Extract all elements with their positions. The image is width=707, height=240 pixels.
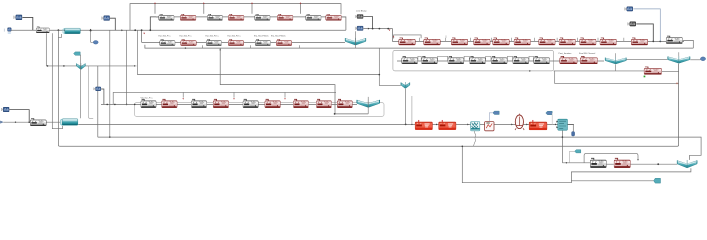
source block H5 (gray) (628, 22, 636, 26)
row A feed riser (150, 17, 158, 30)
row D gap lid 4 (486, 56, 491, 61)
filter block C10 (red) (600, 38, 616, 45)
goto tag Td (575, 150, 581, 153)
junction x405 y124 (405, 124, 407, 126)
junction x150 on main (149, 29, 151, 31)
row C chain wire (392, 40, 684, 42)
filter block C1 (red) (399, 38, 415, 45)
H3 drop (101, 89, 104, 104)
clock block (oval meter) (515, 114, 524, 130)
row F main bus y124.4 (78, 123, 574, 125)
funnel E stem (367, 97, 369, 114)
H5 wire (636, 24, 653, 42)
filter block D9 (red) (580, 56, 597, 64)
filter block C-end (gray) (666, 36, 682, 44)
filter block D8 (red) (560, 56, 577, 64)
source block H1b (102, 16, 110, 21)
bracket A arrow 2 (203, 2, 205, 4)
filter block C9 (red) (580, 38, 596, 45)
filter block D6 (gray) (513, 56, 529, 64)
junction at x58 (58, 29, 60, 31)
gain block A0 (36, 27, 49, 33)
source block H2 (1, 107, 9, 112)
row C gap tick 4 (490, 38, 492, 42)
rowE bracket tick 1 (182, 92, 184, 97)
filter block A2a (gray) (207, 14, 222, 20)
P1 out wire (662, 70, 679, 72)
wire H1 to main node (22, 17, 32, 30)
small cup C1 (77, 63, 86, 70)
gain block F3 (bright) (529, 120, 547, 130)
arrow end bus65.9 (134, 65, 135, 67)
bracket A arrow 3 (251, 2, 253, 4)
filter block E5 (red) (316, 99, 331, 107)
rowG bracket arrow (637, 159, 639, 160)
row B chain wire (142, 41, 345, 43)
funnel E-end (357, 99, 380, 107)
filter block E4 (red) (293, 99, 308, 107)
small cup C2 (401, 82, 410, 89)
filter block D7 (gray) (534, 56, 550, 64)
block P1 (red small) (644, 67, 662, 75)
input port In1 (4, 28, 11, 34)
svg-text:EQ_Std_Fl6bits: EQ_Std_Fl6bits (271, 34, 286, 37)
arrow on under-bus (185, 47, 187, 49)
svg-text:VG_Var_Fl a: VG_Var_Fl a (141, 96, 154, 99)
rowE bracket arrow 2 (233, 98, 235, 99)
filter block D3 (gray) (448, 56, 464, 64)
filter block C7 (red) (539, 38, 555, 45)
goto tag Te (654, 178, 661, 183)
junction x15 y122 (15, 122, 16, 123)
feedback drop T2-to-bus146 (60, 64, 679, 147)
row C gap tick 10 (623, 38, 625, 42)
junction x141 on main (141, 29, 143, 31)
filter block B1b (red) (181, 39, 197, 45)
bus y137 long (98, 66, 701, 160)
arrow rowF e (555, 123, 557, 125)
junction y65.9 a (47, 65, 49, 67)
junction x335 y113.9 (334, 113, 336, 115)
junction x658 y164 (657, 163, 659, 165)
filter block E1a (gray) (141, 99, 156, 107)
filter block C5 (red) (493, 38, 509, 45)
T2 output wire (690, 59, 700, 61)
arrow rowF a (436, 123, 438, 125)
goto tag Tb (493, 111, 499, 114)
filter block A3a (gray) (255, 14, 270, 20)
row E frame (135, 103, 385, 117)
feedback path E (220, 48, 368, 114)
svg-text:Line Blurry: Line Blurry (356, 9, 367, 12)
wire H1b down to main (110, 18, 116, 30)
H4 wire (633, 9, 660, 42)
arrow on frame bottom (529, 70, 531, 72)
switch block W (teal) (471, 122, 480, 131)
teal1 underside loop (58, 34, 61, 37)
row B under tick 3 (299, 45, 301, 48)
drop x109 long (109, 30, 111, 137)
rowE bracket y92.4 (113, 92, 336, 104)
drop x46 (45, 33, 47, 66)
tick on main wire at x90 (90, 29, 92, 30)
filter block A4a (gray) (306, 14, 321, 20)
junction x462 y146 (462, 146, 464, 148)
red arrow row C bracket (393, 36, 395, 37)
LB-bot wire y28.6 (363, 29, 392, 42)
rowG out wire (631, 163, 678, 165)
T2 top stem (678, 52, 680, 56)
filter block E1b (red) (162, 99, 178, 107)
filter block A4b (red) (326, 14, 342, 20)
goto tag Tc (546, 111, 552, 114)
arrow rowF c (511, 123, 513, 125)
C2 stem down (405, 89, 407, 125)
drop x137 to bus74 (136, 30, 138, 74)
filter block B2a (gray) (206, 39, 221, 45)
row D gap lid 3 (464, 56, 469, 61)
filter block G1 (gray) (590, 158, 606, 167)
junction x372 y28.6 (372, 28, 374, 30)
rowG bracket (584, 154, 638, 163)
funnel T2 (668, 56, 690, 63)
row C left bracket (394, 35, 422, 39)
filter block C8 (red) (559, 38, 575, 45)
filter block D2 (gray) (421, 56, 437, 64)
drop x554.7 (555, 71, 679, 84)
drop x52 to teal2-under (52, 33, 62, 129)
drop x88 (89, 66, 94, 118)
junction x412 y124 (411, 124, 412, 125)
junction x115 y104 (114, 104, 116, 106)
row A chain wire (156, 16, 346, 18)
arrowhead on main wire (64, 29, 66, 31)
filter block C2 (red) (424, 38, 440, 45)
bracket A tick 1 (154, 4, 156, 14)
row D frame (393, 50, 554, 71)
rowG tag wire (571, 180, 653, 182)
filter block D4 (gray) (470, 56, 486, 64)
C1 stem (80, 55, 82, 118)
row B under tick 2 (250, 45, 252, 48)
T1 bottom stem (615, 64, 617, 71)
row C gap tick 7 (556, 38, 558, 42)
junction x379 y28.6 (379, 28, 381, 30)
funnel T1 (605, 57, 626, 64)
gain block F1 (bright) (415, 120, 432, 130)
row C end wire down (683, 40, 694, 48)
filter block G2 (red) (614, 158, 630, 167)
funnel G3 (677, 160, 697, 168)
junction x653 y41.4 (652, 41, 654, 43)
goto tag Ta (74, 52, 81, 55)
source block LB-bot (blue) (355, 26, 363, 30)
rowG mid wire (607, 163, 614, 165)
bus y74.6 (137, 74, 379, 76)
filter block E2a (gray) (191, 99, 206, 107)
riser x58 left (58, 30, 59, 146)
bracket A tick 4 (300, 4, 302, 14)
gain block E0 (30, 118, 46, 125)
junction x135 y104 (134, 104, 136, 106)
wire T1 to T2 (627, 58, 668, 60)
row C gap tick 2 (445, 38, 447, 42)
junction x29 y122 (28, 121, 30, 123)
rowF out elbow (568, 125, 573, 132)
source block H3 (94, 87, 101, 91)
svg-text:EQ_Std_Fl6bits: EQ_Std_Fl6bits (254, 34, 269, 37)
source block H4 (blue) (625, 7, 633, 11)
terminator bar (572, 132, 575, 136)
arrow up x220 (219, 49, 221, 50)
arrowhead on main wire 2 (121, 29, 123, 31)
junction rowG in (566, 162, 567, 163)
svg-text:Final ML Channel: Final ML Channel (579, 53, 596, 55)
row A top bracket (130, 4, 341, 31)
filter block B3b (red) (276, 39, 292, 45)
junction x562 y137 (562, 136, 564, 138)
rowE bracket arrow 1 (182, 98, 184, 99)
bracket A arrow 1 (154, 2, 156, 4)
row E chain wire (101, 103, 357, 105)
LB-top wire (363, 17, 372, 29)
junction x126 y104 (126, 104, 128, 106)
bracket A arrow 4 (300, 2, 302, 4)
source block H1 (spectrum src) (14, 15, 22, 20)
tag Td elbow (570, 151, 575, 163)
row C gap tick 8 (577, 38, 579, 42)
bracket A tick 3 (251, 4, 253, 14)
bus y65.9 (46, 65, 136, 67)
arrowhead LB wire (368, 28, 370, 30)
funnel B stem (355, 31, 357, 48)
row A output wrap-around (341, 17, 346, 30)
junction x107 y104 (106, 104, 108, 106)
filter block B3a (gray) (255, 39, 270, 45)
bottom input wire (3, 121, 61, 123)
filter block D1 (gray) (402, 56, 418, 64)
row C gap tick 1 (419, 38, 421, 42)
filter block E3a (gray) (243, 99, 258, 107)
riser x379 (379, 48, 401, 85)
svg-text:EQ_Std_Fl2 a: EQ_Std_Fl2 a (228, 34, 242, 37)
tag Tc drop (551, 113, 553, 124)
svg-text:EQ_Std_Fl a: EQ_Std_Fl a (159, 34, 172, 37)
row C gap tick 3 (470, 38, 472, 42)
filter block C6 (red) (514, 38, 530, 45)
filter block B2b (red) (228, 39, 244, 45)
row C gap tick 5 (511, 38, 513, 42)
row D gap lid 6 (529, 56, 534, 61)
buffer block teal2 (60, 119, 77, 126)
row D gap lid 5 (507, 56, 512, 61)
row B feed drop (141, 30, 143, 42)
source block LB-top (gray) (355, 14, 363, 18)
filter block D5 (gray) (491, 56, 507, 64)
cross marker red (676, 83, 678, 85)
row D gap lid 2 (438, 56, 448, 61)
gain block F2 (bright) (439, 120, 456, 130)
red arrow into row B (143, 33, 145, 35)
junction at x90 (90, 30, 92, 32)
rowG input wire (562, 162, 590, 164)
arrow rowF b (467, 123, 469, 125)
T1 top stem (615, 53, 617, 57)
squiggle wire below W (473, 131, 475, 146)
junction at x135 (134, 29, 136, 31)
junction y65.9 b (63, 65, 65, 67)
filter block C3 (red) (451, 38, 467, 45)
svg-text:EQ_Std_Fl a: EQ_Std_Fl a (180, 34, 193, 37)
buffer block teal1 (63, 28, 80, 34)
svg-text:Post_Iteration: Post_Iteration (559, 52, 573, 55)
main input wire y=30 (11, 29, 346, 31)
arrow rowF d (526, 123, 528, 125)
junction x379 y74.6 (379, 74, 381, 76)
funnel merge B-end (345, 38, 366, 45)
row C mid tick (445, 35, 447, 38)
filter block A1a (gray) (159, 14, 174, 20)
bus y70.9 (frame-bottom ext) (554, 70, 644, 72)
input port In2 (0, 121, 3, 123)
junction x660 y41.4 (659, 41, 661, 43)
filter block B1a (gray) (160, 39, 175, 45)
chart block (teal) (556, 119, 567, 130)
rowE bracket tick 2 (233, 92, 235, 97)
endpoint oval (blue) (93, 41, 98, 45)
row D gap lid 1 (418, 56, 421, 61)
filter block A1b (red) (180, 14, 196, 20)
G3 bottom loop (462, 146, 691, 182)
filter block A2b (red) (228, 14, 244, 20)
filter block E2b (red) (213, 99, 229, 107)
drop x113 gray (411, 96, 413, 124)
tag Tb drop (489, 113, 493, 121)
filter block A3b (red) (277, 14, 293, 20)
row B under-bus y48 (145, 45, 693, 48)
row C gap tick 6 (534, 38, 536, 42)
chart block stem down (561, 131, 563, 163)
filter block C4 (red) (474, 38, 490, 45)
H2 wire (9, 110, 29, 122)
row C gap tick 9 (597, 38, 599, 42)
filter block E6 (red) (337, 99, 352, 107)
rowE bracket arrow 3 (284, 98, 286, 99)
row B under tick 1 (202, 45, 204, 48)
green indicator dot (644, 76, 646, 78)
junction x109 y137 (109, 136, 111, 138)
row D chain wire (397, 60, 604, 62)
red arrow at x388 (389, 30, 391, 32)
drop x126 to rowE (126, 30, 128, 104)
filter block C11 (red) (631, 38, 647, 45)
bracket A tick 2 (203, 4, 205, 14)
filter block E3b (red) (265, 99, 281, 107)
wire to endpoint oval (91, 31, 94, 43)
junction x388 y28.6 (387, 28, 389, 30)
svg-text:EQ_Std_Fl2 a: EQ_Std_Fl2 a (206, 34, 220, 37)
output endpoint oval (700, 57, 705, 61)
saturation block (square) (485, 122, 494, 131)
rowE bracket tick 3 (284, 92, 286, 97)
